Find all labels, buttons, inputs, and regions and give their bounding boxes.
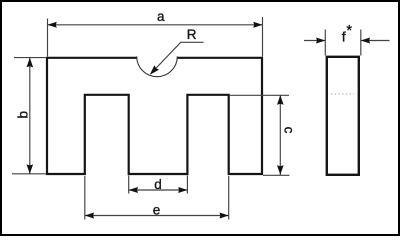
dimension d: arrow right <box>178 187 187 193</box>
dimension a: extension lines <box>48 17 263 57</box>
svg-text:d: d <box>154 177 162 192</box>
dimension c: arrow up <box>277 95 284 104</box>
side view hidden dotted line <box>331 93 354 95</box>
dimension d: line <box>129 189 188 191</box>
notch arc R <box>137 56 178 76</box>
svg-text:b: b <box>16 111 31 119</box>
side view rectangle <box>327 57 359 175</box>
dimension a: line <box>48 24 263 26</box>
svg-text:c: c <box>281 127 296 134</box>
dimension f: arrow pointing left <box>361 38 370 44</box>
dimension e: line <box>85 215 229 217</box>
leader R: arrowhead <box>150 65 159 74</box>
dimension a: arrow right <box>253 22 262 28</box>
dimension d: arrow left <box>129 187 138 193</box>
dimension b: arrow up <box>27 58 34 67</box>
svg-text:e: e <box>153 203 161 218</box>
dimension f: right line <box>361 40 390 42</box>
dimension d: extension lines <box>129 176 188 194</box>
svg-text:*: * <box>346 23 352 39</box>
dimension e: arrow left <box>85 213 94 219</box>
svg-text:f: f <box>342 28 346 44</box>
dimension c: extension lines <box>230 95 290 175</box>
dimension f: arrow pointing right <box>316 38 325 44</box>
dimension e: arrow right <box>220 213 229 219</box>
leader R: polyline <box>153 42 204 72</box>
dimension e: extension lines <box>85 176 229 220</box>
front view body outline <box>47 58 262 174</box>
dimension f: left line <box>304 40 325 42</box>
dimension c: arrow down <box>277 165 284 174</box>
dimension b: arrow down <box>27 164 34 173</box>
dimension b: extension lines <box>12 58 46 174</box>
svg-text:a: a <box>157 9 165 24</box>
dimension c: line <box>279 95 281 175</box>
dimension a: arrow left <box>48 22 57 28</box>
svg-text:R: R <box>187 27 197 42</box>
dimension f: extension lines <box>325 30 361 56</box>
dimension b: line <box>29 58 31 174</box>
